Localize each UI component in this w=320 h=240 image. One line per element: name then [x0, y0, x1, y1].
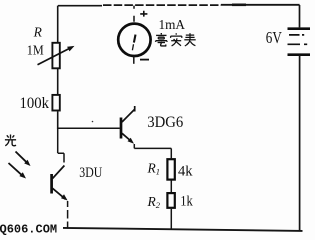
battery bottom long plate — [288, 53, 311, 56]
resistor 100k — [52, 95, 59, 111]
meter needle — [134, 35, 136, 43]
wire: battery to bottom rail — [299, 55, 301, 231]
wire: 3DU emitter down to bottom rail (broken scan) — [67, 201, 69, 229]
phototransistor Q2 3DU: base bar — [50, 174, 53, 194]
battery B1: top long plate — [288, 27, 311, 30]
phototransistor 3DU emitter diagonal with arrow — [53, 188, 68, 200]
wire: 3DG6 emitter to R1 top — [134, 144, 171, 158]
plus mark — [140, 11, 147, 17]
glyph 安 — [171, 33, 182, 46]
wire: meter bottom lead — [133, 56, 135, 64]
phototransistor 3DU collector diagonal — [53, 166, 65, 179]
resistor R1 4k — [167, 159, 174, 179]
meter M1 (milliammeter) circle — [118, 24, 150, 56]
svg-text:6V: 6V — [266, 28, 282, 47]
battery dash-dot row 2 — [288, 43, 308, 45]
wire: top rail — [58, 4, 300, 7]
light arrow 2 — [9, 163, 27, 179]
resistor R2 1k — [167, 193, 174, 208]
svg-text:100k: 100k — [20, 95, 50, 112]
3DG6 collector diagonal and tick — [122, 106, 135, 122]
battery dash-dot row 1 — [289, 34, 304, 36]
light arrow 1 — [16, 152, 31, 167]
wire: base feed to 3DG6 — [58, 127, 120, 129]
wire: left branch from top rail — [57, 6, 59, 43]
wire: R to 100k — [57, 69, 59, 94]
svg-text:Q606.COM: Q606.COM — [0, 222, 57, 236]
wire: meter top lead — [133, 6, 135, 22]
label 光 (hand-drawn glyph) — [5, 135, 16, 146]
glyph 毫 — [156, 33, 167, 46]
svg-text:1k: 1k — [180, 194, 193, 210]
minus mark — [140, 59, 149, 61]
wire: R2 to bottom rail — [170, 209, 172, 230]
3DG6 emitter diagonal with arrow — [122, 133, 134, 144]
wire: right drop from top rail — [299, 5, 301, 27]
glyph 表 — [184, 33, 195, 46]
speck (scan noise) — [92, 121, 94, 123]
wire: R1 to R2 — [170, 181, 172, 193]
svg-text:1mA: 1mA — [159, 18, 186, 33]
svg-text:3DG6: 3DG6 — [147, 114, 183, 131]
wire: bottom rail — [63, 228, 303, 231]
svg-text:3DU: 3DU — [79, 165, 102, 181]
wire: 100k to junction — [57, 112, 59, 129]
resistor R 1M (variable, arrow through body) — [38, 43, 75, 69]
transistor Q1 3DG6: base bar — [120, 118, 123, 139]
label 毫安表 (hand-drawn glyphs) — [156, 33, 196, 46]
svg-text:R: R — [33, 25, 43, 40]
svg-text:4k: 4k — [178, 164, 193, 180]
svg-text:1M: 1M — [27, 43, 44, 58]
wire: junction down to 3DU collector (jog) — [58, 128, 64, 162]
